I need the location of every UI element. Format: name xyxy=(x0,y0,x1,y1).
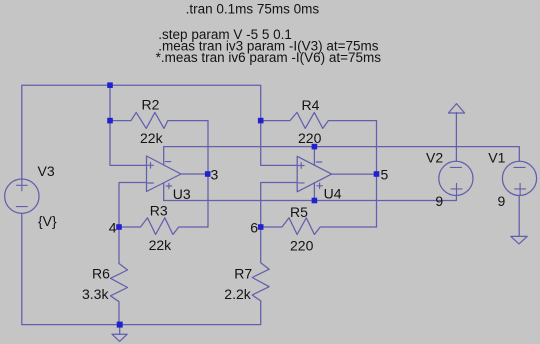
svg-text:R6: R6 xyxy=(92,266,110,282)
wire U4 top power stub xyxy=(313,147,315,166)
svg-text:9: 9 xyxy=(498,193,506,209)
svg-text:V1: V1 xyxy=(488,150,505,166)
wire U3 minus input to node 4 xyxy=(119,183,147,228)
op-amp U3 triangle xyxy=(147,156,182,192)
net flag arrow above V2 xyxy=(448,104,464,113)
wire U3 plus input from node xyxy=(110,85,147,165)
svg-text:220: 220 xyxy=(290,238,314,254)
svg-text:4: 4 xyxy=(109,219,117,235)
resistor R2 xyxy=(110,112,208,128)
wire V- rail to V2 xyxy=(164,196,457,201)
voltage source V2 circle xyxy=(439,161,473,195)
wire U4 bottom power stub xyxy=(313,183,315,201)
svg-text:2.2k: 2.2k xyxy=(224,286,251,302)
svg-text:3.3k: 3.3k xyxy=(82,286,109,302)
wire V1 bottom to ground xyxy=(518,196,520,237)
junction U4 bottom power xyxy=(312,198,318,204)
V2 plus mark xyxy=(451,183,462,195)
U4 bottom power plus mark xyxy=(317,183,322,188)
U3 plus input mark xyxy=(148,162,154,168)
U4 plus input mark xyxy=(298,163,304,169)
V1 plus mark xyxy=(515,183,526,195)
junction node 4 xyxy=(116,224,122,230)
V2 minus mark xyxy=(450,166,461,168)
ground symbol under V1 xyxy=(511,236,527,244)
junction R2 left xyxy=(107,118,113,124)
svg-text:*.meas tran iv6 param -I(V6) a: *.meas tran iv6 param -I(V6) at=75ms xyxy=(156,50,382,65)
svg-text:R3: R3 xyxy=(150,202,168,218)
op-amp U4 triangle xyxy=(297,156,331,192)
svg-text:{V}: {V} xyxy=(38,213,57,229)
wire U4 minus input to node 6 xyxy=(261,183,298,228)
wire node 3 vertical xyxy=(207,121,209,227)
svg-text:.tran 0.1ms 75ms 0ms: .tran 0.1ms 75ms 0ms xyxy=(186,1,320,16)
U3 bottom power plus mark xyxy=(166,183,171,188)
wire V3 bottom to ground rail to R7 bottom xyxy=(22,214,261,325)
wire V3 top to rail to U4 plus input xyxy=(22,85,297,178)
svg-text:V3: V3 xyxy=(38,163,55,179)
wire U4 output xyxy=(332,173,377,175)
resistor R6 xyxy=(111,227,128,325)
voltage source V3 circle xyxy=(5,179,39,213)
resistor R4 xyxy=(261,112,377,128)
wire V2 top to flag xyxy=(455,113,457,161)
svg-text:V2: V2 xyxy=(426,150,443,166)
resistor R7 xyxy=(252,227,269,301)
U3 minus input mark xyxy=(148,182,154,184)
svg-text:U3: U3 xyxy=(173,186,191,202)
U4 top power minus mark xyxy=(316,161,321,163)
U4 minus input mark xyxy=(298,182,304,184)
svg-text:R2: R2 xyxy=(142,97,160,113)
wire U3 bottom power stub xyxy=(163,183,165,201)
V3 plus mark xyxy=(17,179,28,191)
svg-text:R7: R7 xyxy=(234,266,252,282)
svg-text:22k: 22k xyxy=(149,237,173,253)
svg-text:5: 5 xyxy=(381,166,389,182)
junction node 3 xyxy=(205,171,211,177)
svg-text:22k: 22k xyxy=(140,130,164,146)
resistor R3 xyxy=(119,218,208,235)
wire V+ rail to V1 xyxy=(164,147,520,161)
wire ground stub xyxy=(119,325,121,335)
junction top rail V3/U3 xyxy=(107,82,113,88)
U3 top power minus mark xyxy=(165,161,170,163)
svg-text:220: 220 xyxy=(298,130,322,146)
svg-text:3: 3 xyxy=(211,166,219,182)
svg-text:U4: U4 xyxy=(324,185,342,201)
junction node 5 xyxy=(374,171,380,177)
wire U3 top power stub xyxy=(163,147,165,165)
junction U4 top power xyxy=(312,144,318,150)
wire U3 output xyxy=(181,173,208,175)
ground symbol main xyxy=(112,334,127,341)
wire node 5 vertical xyxy=(376,121,378,227)
svg-text:9: 9 xyxy=(435,193,443,209)
V3 minus mark xyxy=(16,206,27,208)
V1 minus mark xyxy=(514,166,525,168)
svg-text:R4: R4 xyxy=(302,97,320,113)
resistor R5 xyxy=(261,218,377,235)
junction ground node xyxy=(117,322,123,328)
voltage source V1 circle xyxy=(502,161,536,195)
svg-text:6: 6 xyxy=(250,219,258,235)
junction R4 left xyxy=(258,118,264,124)
svg-text:R5: R5 xyxy=(290,204,308,220)
junction node 6 xyxy=(258,224,264,230)
